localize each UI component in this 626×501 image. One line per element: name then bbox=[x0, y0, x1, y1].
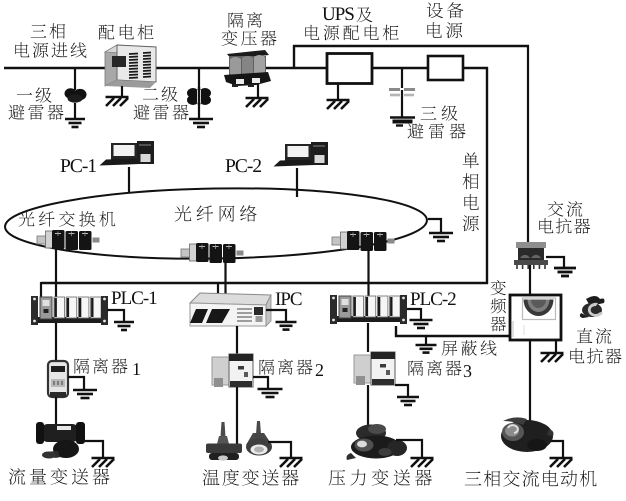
arrester second-level 二级避雷器 bbox=[187, 87, 211, 105]
isolation transformer 隔离变压器 bbox=[224, 50, 271, 87]
PLC-1 rack bbox=[31, 296, 108, 325]
fiber switch middle bbox=[181, 243, 244, 263]
fiber switch left bbox=[37, 230, 100, 250]
wire PLC-1 to isolator-1 bbox=[55, 323, 57, 363]
ground under arrester-1 bbox=[65, 119, 85, 127]
isolator 1 隔离器1 bbox=[48, 361, 68, 397]
computer PC-1 bbox=[100, 141, 155, 166]
wire PC-1 to fiber ring bbox=[128, 167, 130, 193]
ground under isolator-3 bbox=[397, 397, 419, 405]
wire bus to arrester-2 bbox=[198, 68, 200, 90]
label PLC-1 bbox=[112, 291, 157, 304]
label IPC bbox=[276, 292, 302, 305]
pressure transmitter 压力变送器 bbox=[347, 424, 408, 460]
label fiber switch 光纤交换机 bbox=[19, 211, 116, 227]
wire ring to ground bbox=[428, 219, 441, 233]
wire IPC to isolator-2 bbox=[236, 326, 238, 355]
label inverter 变频器 (vertical) bbox=[490, 280, 506, 331]
wire UPS box to ground bbox=[337, 84, 339, 100]
wire PC-2 to fiber ring bbox=[296, 168, 298, 197]
label isolator 2 bbox=[260, 359, 323, 376]
ground under arrester-2 bbox=[189, 119, 213, 127]
label isolator 1 bbox=[75, 358, 140, 375]
label PLC-2 bbox=[411, 292, 456, 305]
label isolator 3 bbox=[409, 360, 472, 377]
wire temperature transmitter to ground bbox=[268, 442, 291, 457]
wire reactor to ground bbox=[546, 257, 564, 268]
label PC-2 bbox=[226, 159, 261, 172]
three-phase AC motor 三相交流电动机 bbox=[501, 417, 554, 452]
flow transmitter 流量变送器 bbox=[36, 422, 85, 459]
fiber switch right bbox=[332, 231, 395, 251]
ground under PLC-1 bbox=[114, 322, 134, 330]
wire transformer to ground bbox=[257, 84, 259, 97]
DC reactor 直流电抗器 bbox=[580, 296, 605, 318]
wire isolator-2 to temperature transmitter bbox=[236, 387, 238, 445]
ground (hatched) under cabinet bbox=[106, 97, 129, 106]
wire top feeder line bbox=[293, 45, 529, 47]
label distribution cabinet bbox=[99, 24, 154, 40]
wire PLC-1 to ground bbox=[107, 310, 124, 322]
label temperature transmitter bbox=[203, 469, 299, 486]
label isolation transformer bbox=[222, 12, 277, 46]
wire PLC-2 to isolator-3 bbox=[367, 323, 369, 352]
wire right switch drop to PLC-2 bbox=[367, 249, 369, 299]
wire left switch drop to PLC-1 bbox=[55, 248, 57, 300]
label first-level arrester bbox=[9, 87, 64, 119]
ground under AC reactor bbox=[554, 268, 576, 276]
wire single-phase bus bbox=[41, 282, 488, 284]
label shielded line 屏蔽线 bbox=[442, 340, 497, 355]
label equipment power bbox=[427, 2, 464, 38]
ground (hatched) under temperature transmitter bbox=[280, 458, 303, 467]
ground (hatched) under inverter bbox=[541, 353, 564, 362]
wire isolator-1 to flow transmitter bbox=[55, 397, 57, 424]
isolator 3 隔离器3 bbox=[354, 352, 395, 385]
fiber optic ring 光纤网络 bbox=[4, 185, 427, 262]
label three-phase power inlet bbox=[15, 23, 86, 57]
label pressure transmitter bbox=[329, 469, 432, 486]
distribution cabinet 配电柜 bbox=[105, 45, 156, 88]
ground (hatched) under UPS box bbox=[327, 100, 350, 109]
label second-level arrester bbox=[134, 86, 189, 119]
ground (hatched) under motor bbox=[550, 458, 573, 467]
inverter (VFD) 变频器 bbox=[510, 295, 561, 340]
AC reactor 交流电抗器 bbox=[514, 242, 548, 269]
wire cabinet to ground bbox=[121, 86, 123, 96]
ground under PLC-2 bbox=[410, 320, 433, 328]
wire bus drop to PLC-1 bbox=[40, 282, 42, 300]
ground under isolator-2 bbox=[258, 389, 283, 397]
wire isolator-3 to pressure transmitter bbox=[367, 385, 369, 428]
wire bus UPS to equipment-power box bbox=[372, 67, 427, 69]
temperature transmitter 温度变送器 bbox=[206, 421, 272, 461]
label fiber network 光纤网络 bbox=[175, 205, 257, 221]
wire isolator-2 to ground bbox=[253, 377, 268, 389]
wire riser jog at x294 bbox=[293, 45, 295, 69]
wire flow transmitter to ground bbox=[84, 441, 103, 457]
ground (hatched) under flow transmitter bbox=[92, 458, 115, 467]
wire IPC to ground bbox=[266, 310, 286, 322]
label three-phase AC motor bbox=[465, 470, 597, 487]
label UPS and power distribution cabinet bbox=[305, 7, 398, 40]
wire arrester-3 to ground bbox=[401, 90, 403, 117]
label DC reactor bbox=[570, 328, 621, 364]
arrester first-level 一级避雷器 bbox=[65, 88, 87, 102]
ground under IPC bbox=[276, 322, 297, 330]
wire bus equipment-power box to right riser bbox=[463, 67, 488, 69]
wire bus to arrester-1 bbox=[74, 68, 76, 90]
wire motor to ground bbox=[551, 441, 563, 457]
wire AC reactor feeder drop bbox=[527, 45, 529, 243]
wire isolator-1 to ground bbox=[68, 377, 84, 390]
arrester third-level 三级避雷器 (surge capacitor) bbox=[389, 90, 415, 96]
wire bus drop to IPC bbox=[217, 282, 219, 296]
wire shield drop to ground bbox=[425, 336, 427, 345]
wire PLC-2 to ground bbox=[407, 309, 421, 320]
isolator 2 隔离器2 bbox=[212, 354, 253, 387]
ground under arrester-3 bbox=[390, 118, 415, 126]
ground of shielded line bbox=[416, 345, 437, 353]
ground (hatched) under transformer bbox=[246, 98, 269, 107]
UPS distribution cabinet box bbox=[327, 54, 372, 84]
PLC-2 rack bbox=[330, 295, 407, 324]
wire main power bus bbox=[4, 67, 326, 69]
wire single-phase riser bbox=[486, 67, 488, 284]
wire reactor to inverter bbox=[529, 263, 531, 295]
wire inverter to motor bbox=[529, 339, 531, 422]
label flow transmitter bbox=[9, 468, 110, 485]
label PC-1 bbox=[61, 159, 96, 172]
ground under isolator-1 bbox=[73, 390, 97, 398]
wire isolator-3 to ground bbox=[395, 385, 408, 397]
computer PC-2 bbox=[274, 142, 329, 167]
ground at ring right bbox=[429, 233, 453, 241]
label AC reactor bbox=[539, 201, 590, 234]
wire arrester-2 to ground bbox=[198, 103, 200, 118]
industrial PC (IPC) bbox=[190, 293, 271, 326]
equipment power box 设备电源 bbox=[428, 56, 463, 80]
label single-phase power 单相电源 bbox=[463, 152, 479, 231]
wire pressure transmitter to ground bbox=[396, 440, 422, 457]
ground (hatched) under pressure transmitter bbox=[411, 458, 434, 467]
wire middle switch drop to IPC bbox=[224, 262, 226, 297]
wire arrester-1 to ground bbox=[74, 103, 76, 119]
wire inverter to ground bbox=[555, 340, 557, 352]
wire bus to arrester-3 bbox=[401, 68, 403, 88]
label third-level arrester bbox=[408, 105, 466, 138]
wire shielded line PLC-2 to inverter bbox=[396, 326, 511, 336]
